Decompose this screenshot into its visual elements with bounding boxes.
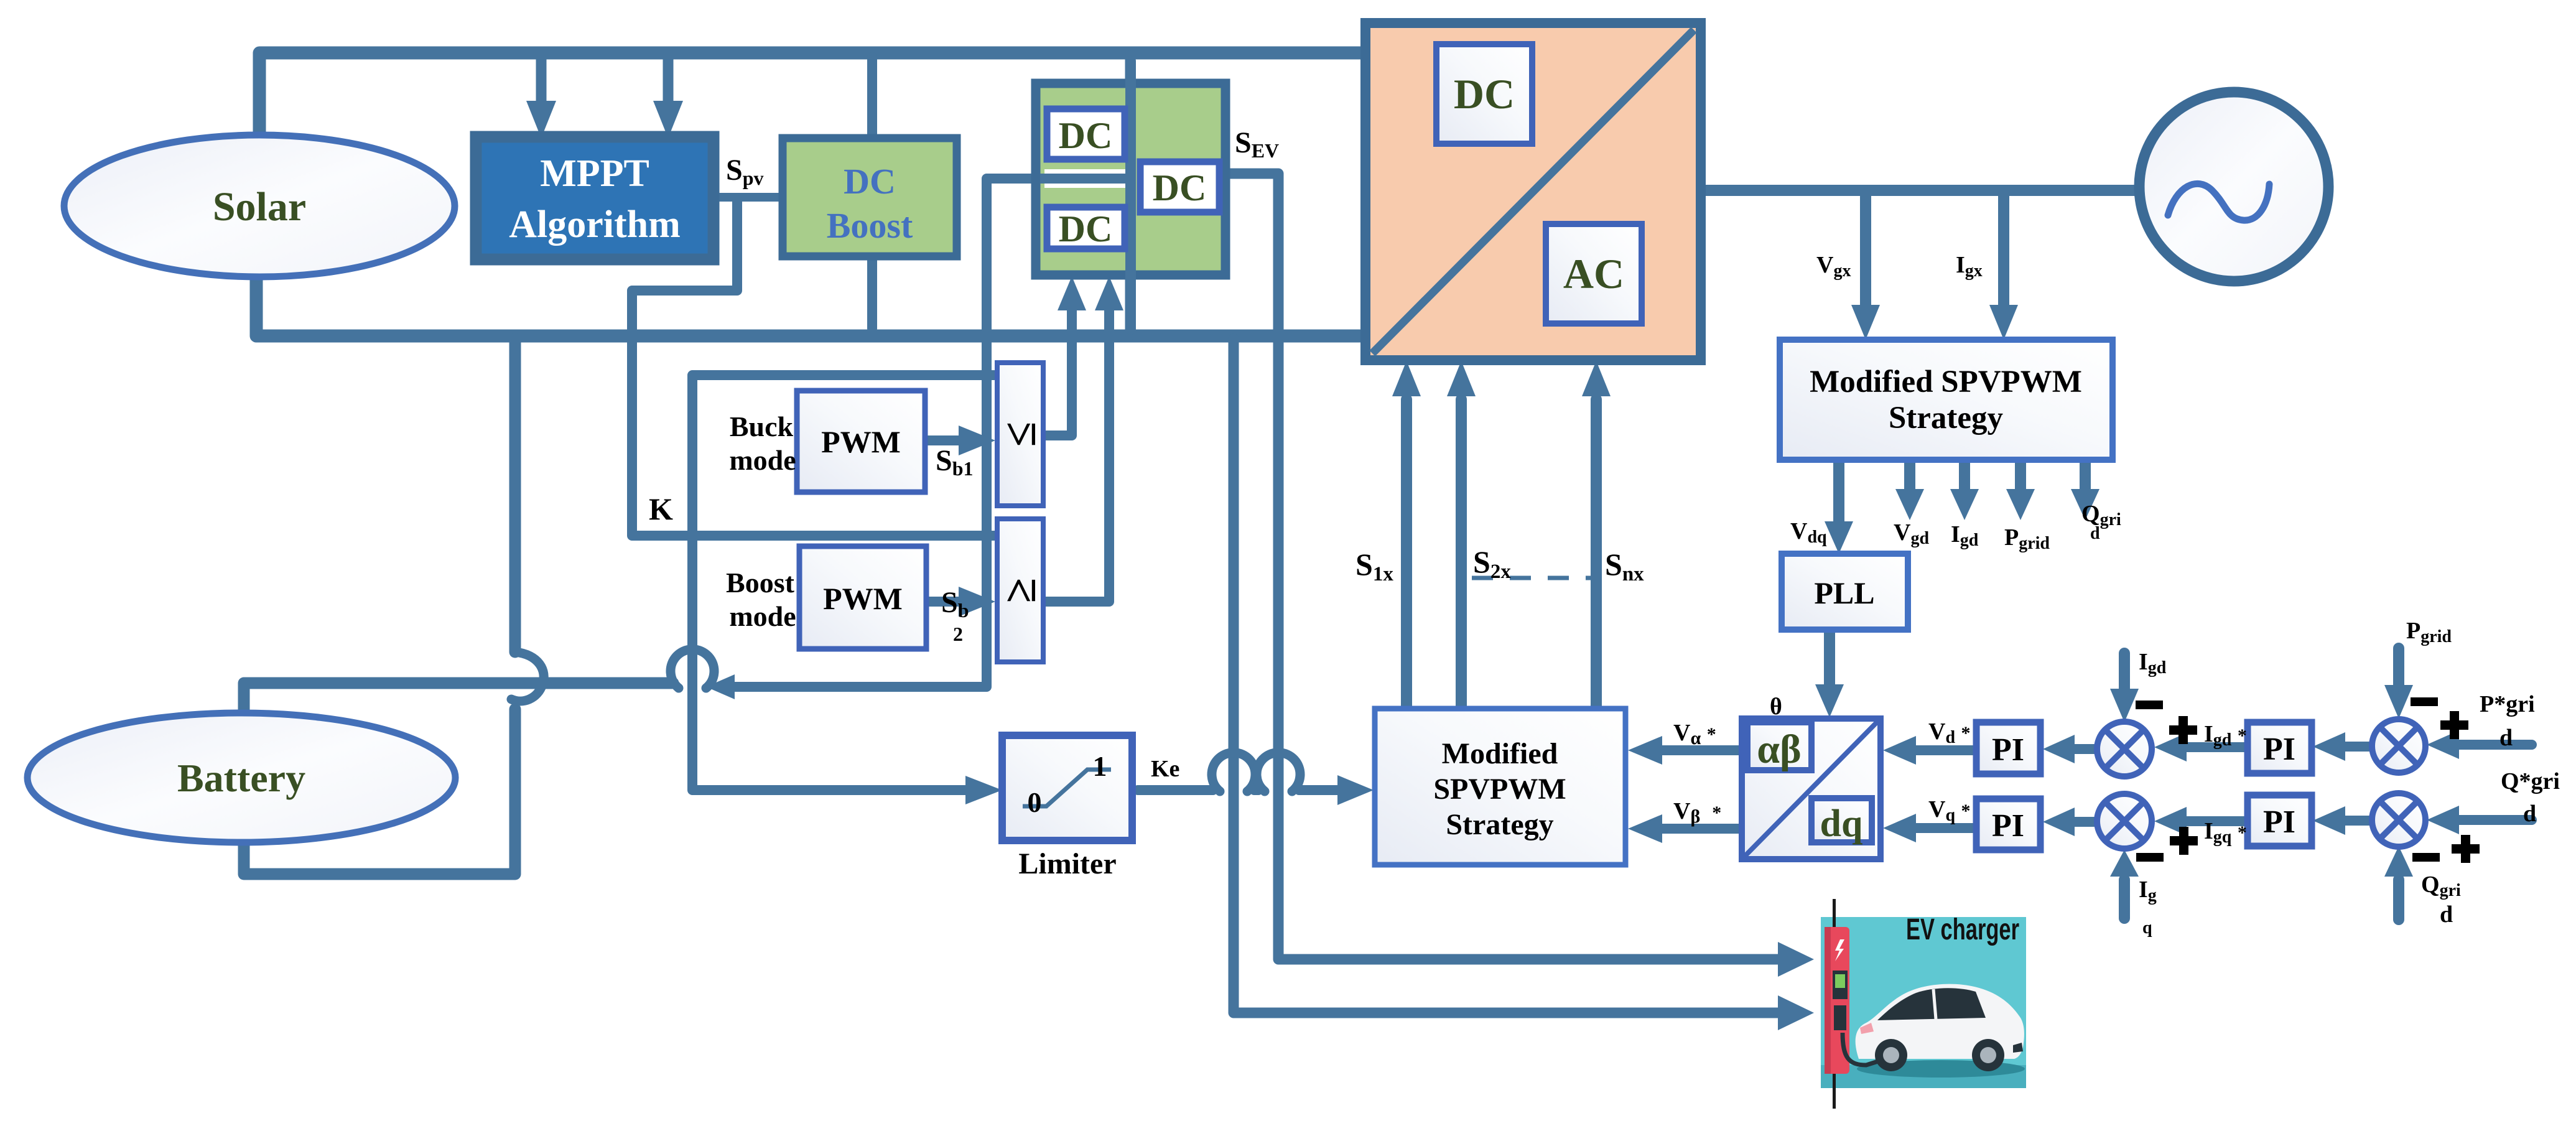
wire multiport internal bus vertical bbox=[1125, 56, 1136, 335]
arrowhead into MPPT 1 bbox=[526, 101, 556, 138]
arrowhead Snx up bbox=[1582, 361, 1611, 396]
PI controller 4 bbox=[2248, 795, 2312, 846]
wire Vdq output of SPVPWM strategy to PLL bbox=[1833, 463, 1844, 524]
wire multiplier 2 to PI2 bbox=[2075, 817, 2096, 827]
PI controller 2 bbox=[1976, 799, 2040, 850]
wire node K vertical to comparator 1 input and Limiter input bbox=[692, 375, 994, 790]
wire Battery top to node K junction bbox=[244, 683, 673, 717]
DC side label box bbox=[1436, 44, 1532, 144]
plus at multiplier 1 bbox=[2169, 716, 2197, 744]
wire Spv from MPPT to DC Boost bbox=[714, 193, 783, 202]
AC side label box bbox=[1546, 224, 1642, 324]
car shadow bbox=[1857, 1060, 2025, 1078]
svg-text:DC: DC bbox=[1153, 167, 1207, 208]
arrowhead theta into ab-dq bbox=[1815, 684, 1844, 717]
wire P*grid input to multiplier 3 bbox=[2459, 740, 2532, 750]
multiport DC/DC converter block bbox=[1036, 56, 1225, 335]
svg-text:Modified: Modified bbox=[1442, 737, 1558, 770]
svg-text:DC: DC bbox=[1454, 70, 1515, 118]
wire crossover hop over node K vertical bbox=[671, 649, 714, 688]
DC cell middle-right bbox=[1140, 162, 1219, 212]
svg-text:1: 1 bbox=[1093, 750, 1107, 782]
svg-text:DC: DC bbox=[1059, 208, 1113, 249]
arrowhead into Limiter bbox=[965, 776, 1002, 804]
svg-text:Buck: Buck bbox=[730, 411, 794, 442]
wire theta from PLL to ab-dq transform bbox=[1824, 631, 1835, 688]
wire Ke from Limiter to Modified SPVPWM strategy bbox=[1138, 785, 1213, 795]
svg-text:d: d bbox=[2523, 801, 2536, 827]
comparator 2 block bbox=[995, 519, 1046, 662]
arrowhead EV feed 1 bbox=[1778, 942, 1814, 977]
svg-text:Boost: Boost bbox=[726, 567, 795, 598]
arrowhead Ke into modified SPVPWM strategy bbox=[1337, 775, 1374, 805]
wire MPPT input arrow 1 shaft bbox=[536, 57, 547, 105]
arrowhead comparator 2 output up bbox=[1095, 276, 1123, 310]
comparator 1 block bbox=[995, 363, 1046, 506]
limiter block bbox=[1002, 735, 1132, 840]
svg-text:0: 0 bbox=[1028, 786, 1042, 818]
grid AC source circle bbox=[2139, 92, 2328, 281]
modified SPVPWM strategy block bottom center bbox=[1375, 709, 1625, 865]
plus at multiplier 2 bbox=[2170, 827, 2198, 855]
svg-text:θ: θ bbox=[1770, 694, 1782, 720]
svg-text:Solar: Solar bbox=[213, 184, 306, 230]
svg-text:PI: PI bbox=[1992, 732, 2024, 768]
svg-text:SPVPWM: SPVPWM bbox=[1433, 773, 1566, 806]
plus at multiplier 4 bbox=[2452, 835, 2480, 863]
alpha-beta label box bbox=[1747, 722, 1811, 772]
arrowhead Vgx down bbox=[1851, 305, 1880, 340]
arrowhead Qgrid stub bbox=[2071, 489, 2099, 520]
svg-text:EV charger: EV charger bbox=[1906, 913, 2019, 946]
svg-text:PI: PI bbox=[1992, 808, 2024, 844]
svg-text:≥: ≥ bbox=[995, 578, 1046, 603]
svg-text:Strategy: Strategy bbox=[1889, 401, 2003, 435]
arrowhead S2x up bbox=[1447, 361, 1476, 396]
arrowhead Pgrid stub bbox=[2006, 489, 2035, 520]
wire SEV from multiport converter to EV charger upper feed bbox=[1218, 174, 1780, 959]
sign symbols at summing junctions bbox=[2136, 697, 2480, 863]
arrowhead Igd stub bbox=[1950, 489, 1979, 520]
white passthrough band in left cell bbox=[1044, 169, 1125, 188]
wire Igq* from PI4 to multiplier 2 bbox=[2187, 816, 2248, 826]
wire MPPT input arrow 2 shaft bbox=[663, 57, 674, 105]
minus at multiplier 4 bbox=[2412, 853, 2440, 862]
svg-text:d: d bbox=[2440, 901, 2453, 928]
arrowhead Igd* into multiplier 1 bbox=[2154, 733, 2187, 761]
front wheel bbox=[1972, 1039, 2004, 1071]
EV charger clipart bbox=[1821, 899, 2026, 1109]
wire Vgd output stub bbox=[1904, 463, 1915, 492]
solar source ellipse bbox=[64, 135, 455, 277]
arrowhead Q*grid into multiplier 4 bbox=[2427, 806, 2459, 834]
svg-text:DC: DC bbox=[1059, 115, 1113, 156]
arrowhead Vgd stub bbox=[1895, 489, 1924, 520]
wire S1x gate signal bbox=[1401, 399, 1412, 709]
arrowhead Vq* into dq box bbox=[1883, 814, 1916, 842]
svg-text:d: d bbox=[2090, 524, 2100, 543]
car windows bbox=[1877, 988, 1986, 1020]
arrowhead loop output into node K vertical bbox=[706, 674, 735, 699]
wire Solar bottom to lower DC bus bbox=[256, 275, 1365, 336]
wire multiplier 4 to PI4 bbox=[2345, 816, 2371, 826]
wire Igd input into multiplier 1 bbox=[2119, 653, 2130, 692]
DC/AC converter block bbox=[1365, 23, 1701, 360]
svg-text:2: 2 bbox=[953, 623, 963, 645]
DC cell bottom-left bbox=[1047, 207, 1125, 249]
wire top bus to DC Boost top bbox=[867, 57, 877, 140]
wire Ke segment after crossovers bbox=[1299, 785, 1339, 795]
teal background bbox=[1821, 917, 2026, 1088]
svg-text:P*gri: P*gri bbox=[2480, 691, 2535, 717]
wire multiport left port band bbox=[1040, 174, 1125, 184]
wire crossover hop Ke over EV feed 2 bbox=[1212, 753, 1255, 791]
sine symbol bbox=[2168, 184, 2269, 220]
wire Battery bottom to lower bus bbox=[244, 709, 515, 874]
arrowhead into PI2 bbox=[2043, 808, 2075, 836]
svg-text:K: K bbox=[649, 491, 673, 526]
battery source ellipse bbox=[27, 713, 455, 842]
arrowhead Igq* into multiplier 2 bbox=[2154, 807, 2187, 836]
car body bbox=[1856, 984, 2024, 1059]
saturation curve bbox=[1023, 770, 1111, 806]
arrowhead into MPPT 2 bbox=[653, 101, 683, 138]
svg-text:PWM: PWM bbox=[821, 424, 901, 459]
minus at multiplier 3 bbox=[2411, 697, 2438, 706]
wire Va* to modified SPVPWM strategy bbox=[1662, 745, 1742, 755]
wire Vd* from PI1 to dq transform bbox=[1916, 745, 1976, 755]
wire crossover hop Ke over EV feed 1 bbox=[1257, 753, 1300, 791]
wire Ke segment between crossovers bbox=[1254, 785, 1258, 795]
dq label box bbox=[1811, 798, 1872, 845]
svg-text:q: q bbox=[2142, 918, 2152, 938]
svg-text:DC: DC bbox=[844, 161, 896, 202]
svg-text:Modified SPVPWM: Modified SPVPWM bbox=[1810, 365, 2082, 399]
arrowhead comparator 1 output up bbox=[1058, 276, 1086, 310]
wire multiplier 1 to PI1 bbox=[2075, 744, 2096, 754]
arrowhead P*grid into multiplier 3 bbox=[2427, 730, 2459, 759]
plus at multiplier 3 bbox=[2440, 711, 2468, 739]
arrowhead Vd* into dq box bbox=[1883, 736, 1916, 765]
PI controller 3 bbox=[2248, 722, 2312, 773]
window divider bbox=[1933, 989, 1936, 1019]
arrowhead Igq into multiplier 2 bottom bbox=[2110, 850, 2139, 877]
wire crossover hook of battery bus over battery top wire bbox=[511, 652, 544, 701]
arrowhead EV feed 2 bbox=[1778, 995, 1814, 1030]
wire Pgrid input into multiplier 3 bbox=[2393, 648, 2404, 688]
wire Vgx arrow shaft bbox=[1860, 194, 1871, 309]
multiplier 1 summing circle bbox=[2097, 722, 2152, 776]
svg-text:AC: AC bbox=[1563, 250, 1624, 297]
charger pillar bbox=[1825, 927, 1849, 1074]
charger screen bbox=[1833, 971, 1848, 999]
wire lower bus to EV charger lower feed bbox=[1234, 339, 1780, 1013]
front bumper accent bbox=[2013, 1043, 2023, 1053]
wire AC link from DC/AC converter to grid bbox=[1701, 185, 2135, 196]
wire Snx gate signal bbox=[1591, 399, 1602, 709]
ab-dq transform block bbox=[1742, 719, 1881, 859]
svg-text:PI: PI bbox=[2263, 732, 2295, 767]
wire top DC bus from Solar to DC/AC converter bbox=[259, 53, 1365, 136]
wire Q*grid input to multiplier 4 bbox=[2459, 815, 2532, 825]
lightning icon bbox=[1835, 939, 1844, 961]
boost PWM block bbox=[799, 546, 926, 649]
wire Igq input into multiplier 2 bbox=[2119, 880, 2130, 918]
arrowhead S1x up bbox=[1392, 361, 1421, 396]
wire battery bus vertical above crossover bbox=[509, 339, 521, 652]
arrowhead Va* left bbox=[1628, 736, 1662, 765]
wire Qgrid input into multiplier 4 bbox=[2393, 880, 2404, 920]
svg-text:≤: ≤ bbox=[995, 422, 1046, 447]
svg-text:Q*gri: Q*gri bbox=[2501, 768, 2560, 794]
wire multiplier 3 to PI3 bbox=[2345, 742, 2371, 752]
pole line bbox=[1833, 899, 1836, 1109]
wire node K routing from Spv down to comparator 2 input bbox=[632, 200, 994, 536]
svg-text:Boost: Boost bbox=[827, 205, 913, 246]
svg-text:αβ: αβ bbox=[1757, 727, 1802, 772]
svg-text:mode: mode bbox=[729, 444, 796, 476]
svg-text:Algorithm: Algorithm bbox=[509, 203, 681, 246]
arrowhead Vb* left bbox=[1628, 814, 1662, 843]
wire Igx arrow shaft bbox=[1998, 194, 2009, 309]
wire diagonal of DC/AC converter bbox=[1372, 30, 1694, 353]
wire comparator 1 output up into multiport converter bbox=[1043, 309, 1072, 435]
svg-text:Ke: Ke bbox=[1151, 756, 1179, 782]
modified SPVPWM strategy block top right bbox=[1780, 340, 2113, 460]
arrowhead into PI4 bbox=[2313, 806, 2345, 835]
ground strip bbox=[1821, 1065, 2026, 1088]
wire Sb1 from Buck PWM to comparator 1 bbox=[925, 435, 961, 445]
svg-text:Strategy: Strategy bbox=[1446, 808, 1553, 841]
wire S2x gate signal bbox=[1456, 399, 1467, 709]
tail light bbox=[1860, 1023, 1874, 1034]
multiplier 2 summing circle bbox=[2097, 794, 2152, 849]
svg-text:MPPT: MPPT bbox=[540, 152, 649, 195]
charging cable bbox=[1843, 1033, 1880, 1065]
svg-text:PWM: PWM bbox=[823, 581, 903, 616]
svg-text:Battery: Battery bbox=[177, 756, 305, 800]
DC cell top-left bbox=[1047, 109, 1125, 159]
arrowhead Sb1 into comparator 1 bbox=[959, 426, 995, 455]
diagonal of transform block bbox=[1745, 722, 1877, 856]
buck PWM block bbox=[797, 391, 925, 492]
arrowhead Pgrid into multiplier 3 top bbox=[2384, 685, 2413, 719]
minus at multiplier 2 bbox=[2136, 853, 2164, 862]
wire Igd* from PI3 to multiplier 1 bbox=[2187, 742, 2248, 752]
arrowhead into PI1 bbox=[2043, 735, 2075, 763]
arrowhead Igx down bbox=[1989, 305, 2018, 340]
svg-text:PI: PI bbox=[2263, 804, 2295, 840]
svg-text:d: d bbox=[2499, 725, 2513, 751]
rear wheel bbox=[1875, 1039, 1907, 1071]
PI controller 1 bbox=[1976, 722, 2040, 774]
svg-text:Limiter: Limiter bbox=[1018, 847, 1116, 880]
minus at multiplier 1 bbox=[2136, 701, 2163, 709]
arrowhead Qgrid into multiplier 4 bottom bbox=[2384, 846, 2413, 877]
arrowhead into PI3 bbox=[2313, 732, 2345, 761]
wire top bus through multiport converter to lower bus bbox=[1125, 56, 1136, 335]
arrowhead Igd into multiplier 1 top bbox=[2110, 689, 2139, 722]
svg-text:PLL: PLL bbox=[1814, 575, 1874, 610]
arrowhead Sb2 into comparator 2 bbox=[959, 587, 995, 617]
wire comparator 2 output up into multiport converter bbox=[1043, 309, 1109, 602]
wire Vq* from PI2 to dq transform bbox=[1916, 823, 1976, 833]
wire Pgrid output stub bbox=[2015, 463, 2026, 492]
wire Sb2 from Boost PWM to comparator 2 bbox=[926, 597, 961, 607]
wire multiport converter left port to comparator loop bottom bbox=[720, 179, 1035, 687]
DC Boost block bbox=[783, 138, 957, 256]
wire Vb* to modified SPVPWM strategy bbox=[1662, 824, 1742, 834]
wire Qgrid output stub bbox=[2080, 463, 2091, 492]
svg-text:mode: mode bbox=[729, 600, 796, 632]
wire DC Boost bottom to lower bus bbox=[867, 256, 877, 328]
wire Igd output stub bbox=[1959, 463, 1970, 492]
wire dashed continuation S2x to Snx bbox=[1472, 576, 1593, 580]
multiplier 3 summing circle bbox=[2372, 719, 2425, 773]
arrowhead Vdq into PLL bbox=[1825, 521, 1853, 554]
multiplier 4 summing circle bbox=[2372, 793, 2425, 847]
MPPT algorithm block bbox=[476, 137, 714, 259]
svg-text:dq: dq bbox=[1820, 803, 1863, 845]
PLL block bbox=[1782, 554, 1908, 630]
